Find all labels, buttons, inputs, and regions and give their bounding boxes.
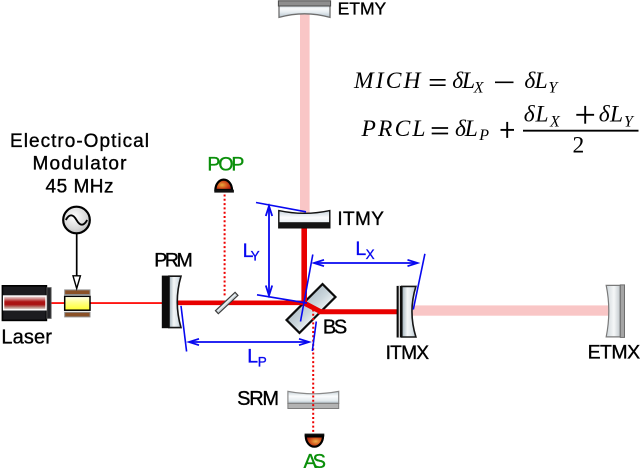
photodetector POP [214, 180, 234, 193]
svg-text:Y: Y [624, 113, 635, 130]
svg-text:ETMY: ETMY [338, 0, 387, 18]
svg-text:MICH: MICH [353, 68, 423, 94]
label L_P [247, 345, 266, 369]
tick line ITMX plane (L_X right) [413, 254, 425, 310]
tick line ITMY plane (L_Y top) [256, 203, 306, 212]
mirror SRM [288, 391, 339, 408]
oscillator symbol [63, 207, 90, 234]
wire: power recycling cavity beam PRM-BS (thick red) [176, 300, 306, 305]
wire: X-arm cavity beam (pale) ITMX-ETMX [411, 305, 609, 315]
mirror PRM [162, 276, 181, 329]
beamsplitter BS [287, 284, 336, 333]
pick-off plate [215, 292, 237, 313]
svg-text:2: 2 [573, 133, 585, 159]
wire: input beam laser-PRM (thin red) [50, 302, 172, 304]
svg-text:X: X [366, 247, 375, 262]
dimension L_X arrow [314, 260, 418, 266]
svg-text:L: L [609, 101, 623, 127]
mirror ITMX [397, 286, 416, 338]
svg-text:AS: AS [304, 451, 327, 468]
svg-text:L: L [535, 101, 549, 127]
tick line BS (L_P right) [312, 322, 316, 352]
svg-text:X: X [549, 113, 561, 130]
equation MICH = dLx - dLy [353, 68, 559, 97]
mirror ITMY [279, 211, 330, 228]
svg-text:Y: Y [548, 80, 559, 97]
svg-text:P: P [258, 354, 267, 369]
svg-text:Modulator: Modulator [33, 154, 128, 175]
svg-text:δ: δ [599, 101, 611, 127]
photodetector AS [305, 434, 325, 447]
mirror ETMX [606, 285, 624, 338]
wire: Y michelson beam BS-ITMY (thick red) [301, 226, 307, 303]
dimension L_P arrow [189, 339, 309, 345]
arrow oscillator to EOM [73, 234, 80, 289]
svg-text:ITMX: ITMX [386, 343, 430, 364]
label Electro-Optical Modulator 45 MHz [10, 131, 149, 197]
tick line BS plane (L_Y bottom) [257, 295, 307, 303]
svg-text:PRM: PRM [154, 250, 193, 272]
svg-text:ETMX: ETMX [588, 341, 640, 363]
svg-text:ITMY: ITMY [337, 209, 384, 230]
svg-text:45 MHz: 45 MHz [46, 177, 114, 198]
svg-text:Y: Y [251, 249, 260, 264]
laser [2, 286, 51, 321]
label L_X [355, 238, 374, 262]
svg-text:Electro-Optical: Electro-Optical [10, 131, 149, 152]
svg-text:BS: BS [323, 317, 347, 339]
svg-text:L: L [534, 68, 548, 94]
svg-text:SRM: SRM [237, 388, 279, 410]
tick line PRM plane (L_P left) [181, 306, 187, 352]
svg-text:L: L [464, 116, 478, 142]
svg-text:POP: POP [207, 153, 244, 175]
wire: refracted beam inside BS [303, 303, 321, 312]
svg-text:X: X [473, 80, 485, 97]
wire: antisymmetric beam BS-SRM-AS (dotted red) [312, 310, 314, 434]
svg-text:L: L [247, 345, 258, 367]
label L_Y [243, 240, 260, 264]
equation PRCL = dLp + (dLx+dLy)/2 [361, 101, 639, 158]
svg-text:P: P [478, 127, 489, 144]
wire: X michelson beam BS-ITMX (thick red) [318, 309, 400, 314]
svg-text:Laser: Laser [1, 327, 52, 349]
tick line BS (L_X left) [301, 255, 313, 322]
mirror ETMY [278, 1, 330, 18]
svg-text:PRCL: PRCL [361, 116, 426, 142]
dimension L_Y arrow [266, 206, 272, 296]
wire: pick-off beam to POP (dotted red) [224, 195, 226, 297]
wire: Y-arm cavity beam (pale) ETMY-ITMY [300, 13, 310, 214]
EOM (electro-optic modulator) [65, 290, 90, 317]
svg-text:δ: δ [524, 101, 536, 127]
